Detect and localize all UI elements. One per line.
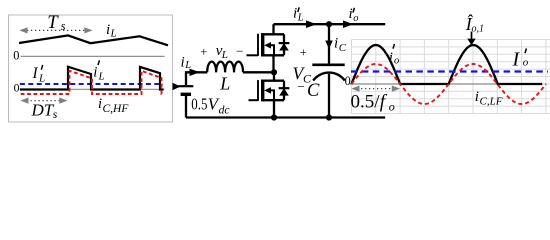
svg-text:i: i	[475, 89, 479, 105]
svg-text:s: s	[61, 19, 66, 33]
svg-text:0.5: 0.5	[191, 95, 207, 114]
svg-text:i: i	[334, 36, 338, 52]
svg-text:C,LF: C,LF	[480, 95, 503, 107]
svg-text:I: I	[512, 49, 521, 71]
svg-text:o,1: o,1	[472, 24, 485, 35]
svg-text:i: i	[93, 65, 97, 81]
svg-text:L: L	[297, 13, 304, 24]
svg-text:T: T	[47, 12, 59, 33]
svg-text:s: s	[53, 107, 58, 121]
svg-text:dc: dc	[219, 104, 230, 116]
svg-text:L: L	[221, 49, 228, 61]
svg-text:L: L	[38, 73, 45, 85]
svg-text:o: o	[523, 56, 529, 68]
svg-text:o: o	[353, 13, 358, 24]
svg-text:L: L	[98, 71, 105, 83]
svg-text:DT: DT	[31, 100, 55, 119]
svg-text:+: +	[300, 45, 307, 59]
svg-text:C,HF: C,HF	[103, 103, 130, 115]
svg-text:C: C	[339, 42, 347, 54]
svg-text:i: i	[293, 6, 297, 22]
svg-text:i: i	[389, 50, 393, 66]
svg-text:L: L	[184, 60, 191, 71]
svg-text:I: I	[32, 65, 39, 82]
svg-text:−: −	[298, 79, 305, 94]
svg-text:+: +	[200, 45, 207, 59]
svg-text:i: i	[98, 96, 102, 112]
svg-text:0: 0	[14, 81, 20, 95]
svg-text:L: L	[110, 28, 117, 40]
svg-text:o: o	[389, 100, 395, 114]
svg-text:i: i	[181, 55, 185, 71]
svg-text:i: i	[349, 6, 353, 22]
svg-text:L: L	[219, 74, 230, 94]
svg-text:0: 0	[13, 49, 19, 63]
svg-text:0.5/: 0.5/	[351, 92, 381, 113]
svg-text:o: o	[394, 56, 399, 67]
svg-text:C: C	[307, 81, 320, 101]
svg-text:−: −	[236, 43, 243, 58]
svg-text:0: 0	[345, 74, 351, 88]
